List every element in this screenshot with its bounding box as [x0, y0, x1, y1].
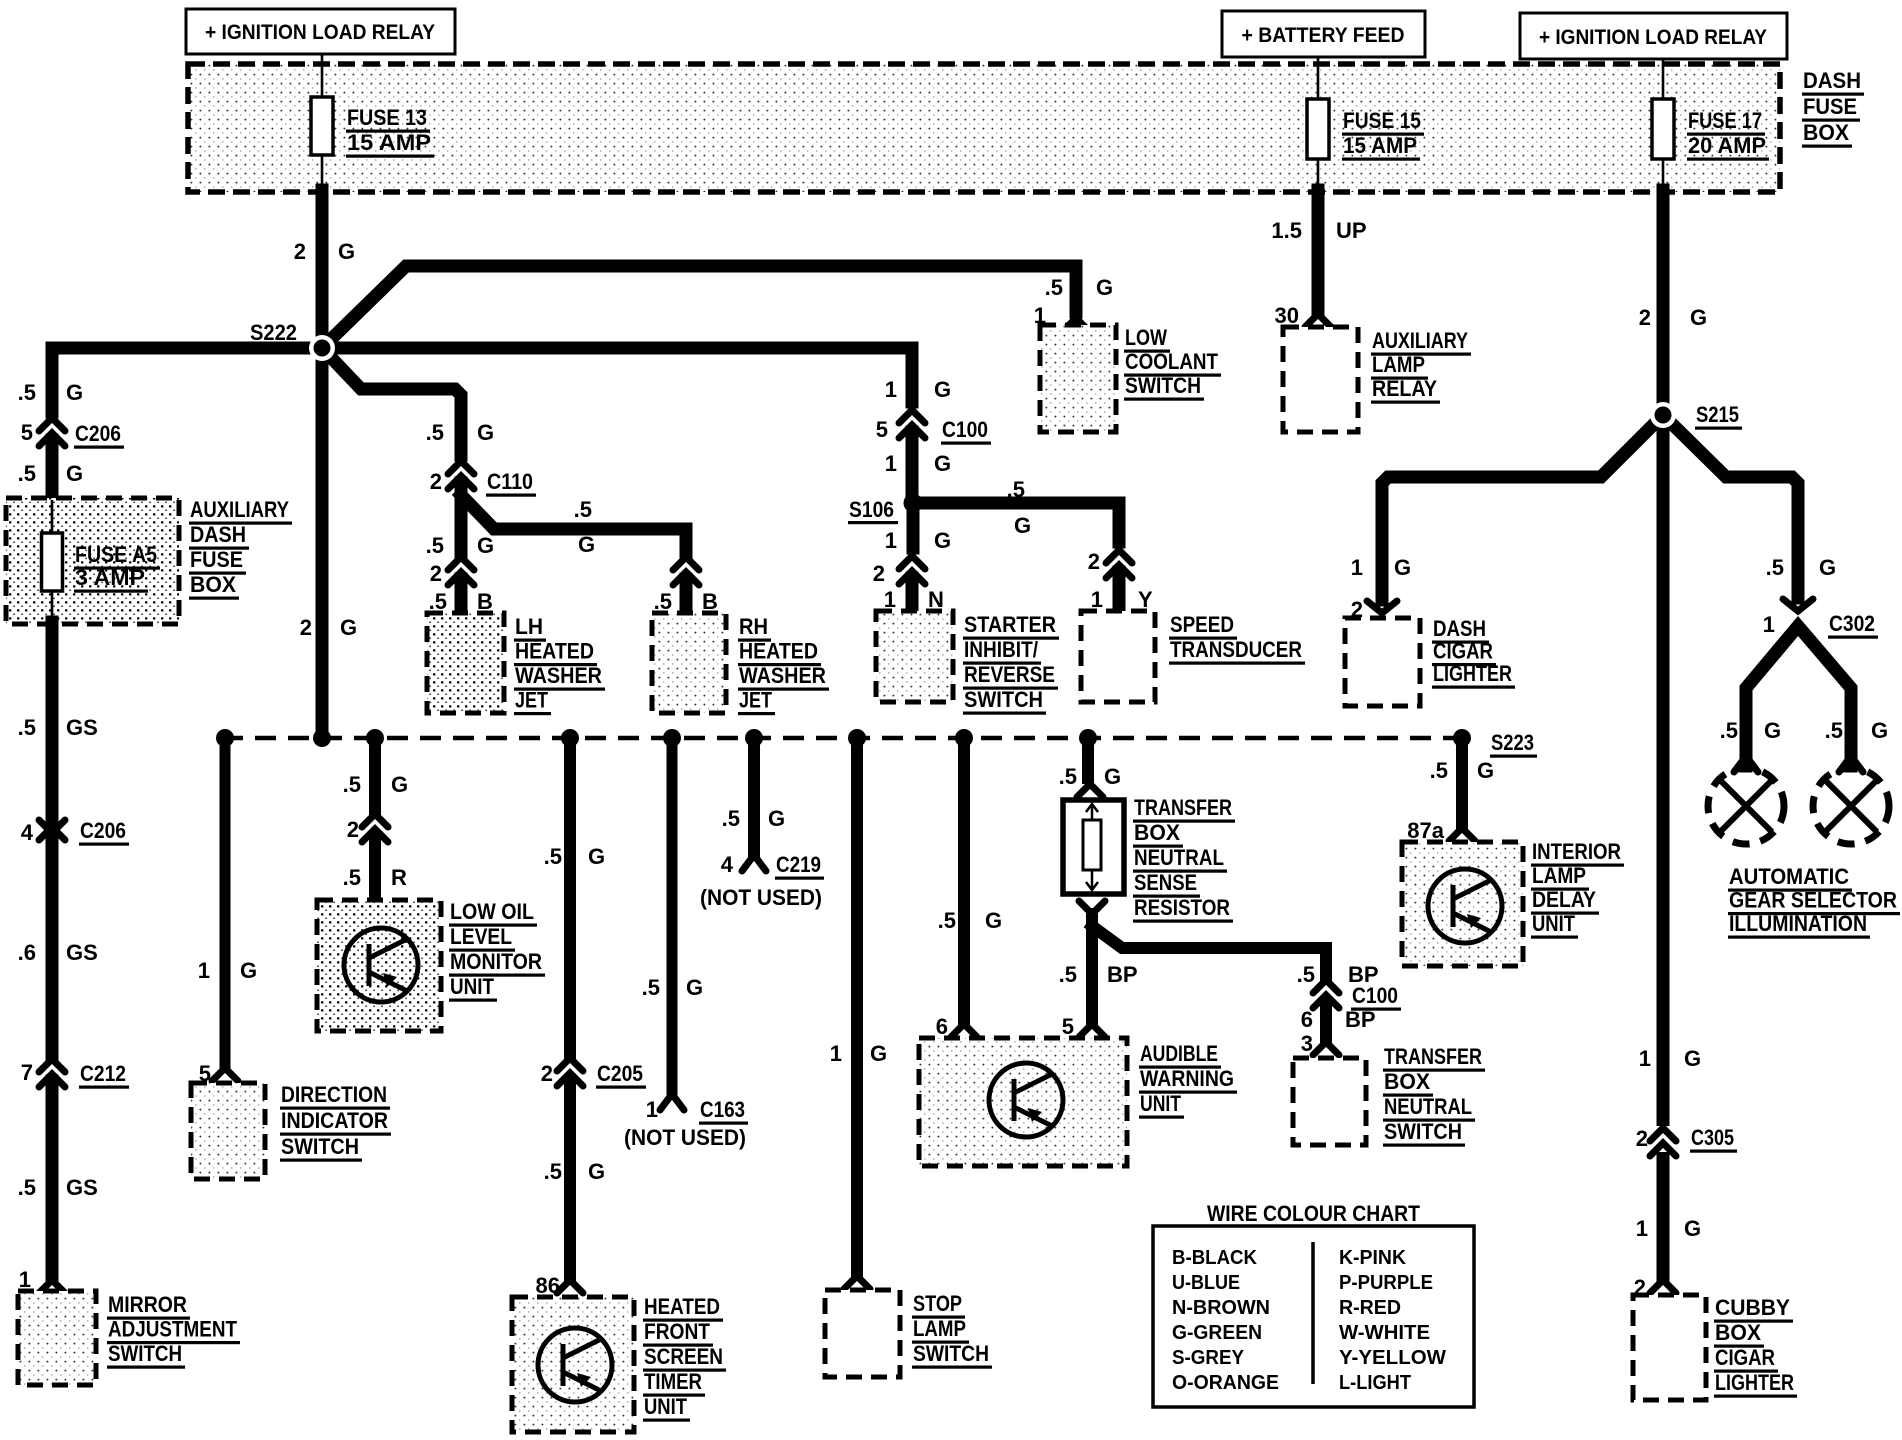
svg-text:S215: S215	[1696, 402, 1739, 427]
fuse 15 value label	[1342, 108, 1424, 161]
bus junction dots	[216, 729, 1097, 747]
svg-text:GS: GS	[66, 1175, 98, 1200]
wire: bus down to direction indicator switch, size 1 colour G, pin 5	[198, 738, 257, 1086]
auxiliary dash fuse box label	[189, 497, 292, 600]
wire: C206 to auxiliary dash fuse box, size .5 colour G	[18, 440, 83, 500]
wire: S222 branch right to C100 / starter inhibit column	[322, 348, 912, 402]
svg-text:G: G	[578, 532, 595, 557]
heated front screen timer unit label	[643, 1294, 726, 1422]
svg-text:C302: C302	[1829, 611, 1875, 636]
wire: sense resistor branch across to C100, size .5 colour BP	[1092, 926, 1379, 987]
transistor symbol in heated front screen timer unit	[538, 1328, 612, 1402]
svg-text:LOW OIL: LOW OIL	[450, 899, 534, 924]
svg-text:.5: .5	[1766, 555, 1784, 580]
starter inhibit / reverse switch	[876, 611, 953, 702]
wire: C206 to C212, size .6 colour GS	[18, 841, 98, 1056]
svg-text:1: 1	[884, 587, 896, 612]
svg-text:UNIT: UNIT	[1140, 1091, 1181, 1116]
svg-text:2: 2	[430, 469, 442, 494]
wire: battery feed down to fuse 15	[1317, 57, 1320, 99]
wire: pin .5 colour B into LH heated washer jet	[429, 579, 493, 614]
svg-text:.5: .5	[426, 420, 444, 445]
svg-text:.5: .5	[544, 1159, 562, 1184]
svg-text:G: G	[391, 772, 408, 797]
svg-text:.5: .5	[343, 865, 361, 890]
svg-text:G: G	[66, 380, 83, 405]
svg-text:TRANSFER: TRANSFER	[1384, 1044, 1482, 1069]
svg-text:G: G	[338, 239, 355, 264]
wire: ignition load relay down to fuse 17	[1662, 59, 1665, 99]
svg-text:FUSE: FUSE	[1803, 94, 1857, 119]
svg-text:TRANSFER: TRANSFER	[1134, 795, 1232, 820]
svg-text:.5: .5	[574, 497, 592, 522]
svg-text:TRANSDUCER: TRANSDUCER	[1170, 637, 1302, 662]
svg-text:LAMP: LAMP	[913, 1316, 966, 1341]
interior lamp delay unit label	[1531, 839, 1624, 939]
svg-text:HEATED: HEATED	[739, 639, 818, 664]
svg-text:NEUTRAL: NEUTRAL	[1384, 1094, 1472, 1119]
svg-text:+ IGNITION LOAD RELAY: + IGNITION LOAD RELAY	[205, 21, 435, 44]
svg-text:G: G	[240, 958, 257, 983]
svg-text:NEUTRAL: NEUTRAL	[1134, 845, 1224, 870]
mirror adjustment switch	[18, 1291, 96, 1385]
connector pin into stop lamp switch	[844, 1276, 870, 1289]
svg-text:S106: S106	[849, 497, 894, 522]
wire: bus down to stop lamp switch, size 1 colour G	[830, 738, 887, 1272]
wire: pin 1 colour Y into speed transducer	[1091, 572, 1153, 612]
svg-text:.5: .5	[429, 589, 447, 614]
svg-text:R: R	[391, 865, 407, 890]
fuse A5 value label	[74, 542, 160, 593]
svg-text:.5: .5	[1007, 477, 1025, 502]
wire label 1 G above C100	[885, 377, 951, 402]
svg-text:G: G	[1477, 758, 1494, 783]
svg-text:G-GREEN: G-GREEN	[1172, 1322, 1262, 1344]
svg-text:CIGAR: CIGAR	[1433, 639, 1493, 664]
transistor symbol in low oil level monitor unit	[344, 928, 418, 1002]
svg-text:DASH: DASH	[190, 522, 246, 547]
svg-text:AUXILIARY: AUXILIARY	[190, 497, 289, 522]
svg-text:2: 2	[294, 239, 306, 264]
svg-text:C212: C212	[80, 1061, 126, 1086]
svg-text:LEVEL: LEVEL	[450, 924, 512, 949]
fuse 13 value label	[346, 105, 434, 158]
wire: C100 to transfer box neutral switch pin 3	[1301, 1002, 1326, 1056]
svg-text:.5: .5	[722, 806, 740, 831]
svg-text:2: 2	[347, 817, 359, 842]
connector pin 2 into cubby box cigar lighter	[1634, 1275, 1676, 1300]
connector C100 pin 6 colour BP	[1301, 980, 1401, 1032]
svg-text:MIRROR: MIRROR	[108, 1292, 187, 1317]
svg-text:JET: JET	[515, 688, 548, 713]
svg-text:G: G	[1104, 764, 1121, 789]
svg-text:AUXILIARY: AUXILIARY	[1372, 328, 1468, 353]
svg-text:G: G	[477, 533, 494, 558]
transfer box neutral sense resistor label	[1133, 795, 1235, 923]
svg-text:G: G	[66, 461, 83, 486]
svg-text:RH: RH	[739, 614, 768, 639]
svg-text:DELAY: DELAY	[1532, 887, 1596, 912]
connector C305 pin 2	[1636, 1125, 1737, 1156]
connector C206 pin 5	[21, 418, 124, 449]
svg-text:INTERIOR: INTERIOR	[1532, 839, 1621, 864]
svg-text:C206: C206	[80, 818, 126, 843]
wire: bus down to low oil level monitor unit, size .5 G then .5 R	[343, 738, 408, 810]
svg-text:S-GREY: S-GREY	[1172, 1347, 1245, 1369]
connector pin 6 into audible warning unit	[951, 1024, 977, 1037]
svg-text:BOX: BOX	[1803, 120, 1849, 145]
svg-text:BOX: BOX	[1715, 1320, 1761, 1345]
connector pin 3 into transfer box neutral switch	[1313, 1042, 1339, 1055]
svg-text:2: 2	[873, 561, 885, 586]
connector pin on RH washer jet wire	[673, 557, 699, 585]
svg-text:Y: Y	[1138, 587, 1153, 612]
svg-text:BP: BP	[1107, 962, 1138, 987]
svg-text:G: G	[1394, 555, 1411, 580]
fuse A5, 3 amp	[42, 533, 63, 591]
connector C205 pin 2	[541, 1058, 646, 1089]
svg-text:C163: C163	[700, 1097, 745, 1122]
node S222 label	[249, 320, 300, 348]
power feed label box: + IGNITION LOAD RELAY (left)	[186, 9, 455, 54]
svg-text:20 AMP: 20 AMP	[1688, 133, 1766, 158]
svg-text:1: 1	[885, 451, 897, 476]
svg-text:.5: .5	[938, 908, 956, 933]
node S222 junction dot	[309, 335, 335, 361]
svg-text:1: 1	[885, 377, 897, 402]
svg-text:WASHER: WASHER	[739, 663, 826, 688]
svg-text:2: 2	[1088, 549, 1100, 574]
cubby box cigar lighter label	[1714, 1295, 1797, 1398]
node S215 junction dot	[1650, 402, 1676, 428]
svg-text:C100: C100	[1352, 983, 1398, 1008]
wire: C212 to mirror adjustment switch, size .5 colour GS, pin 1	[18, 1081, 98, 1292]
svg-text:15 AMP: 15 AMP	[347, 130, 431, 155]
wire: sense resistor down to audible warning unit pin 5, size .5 colour BP	[1059, 901, 1138, 1039]
svg-text:RESISTOR: RESISTOR	[1134, 895, 1230, 920]
connector C100 (starter feed), pin 5	[876, 410, 991, 445]
wire: S222 elbow to connector C110	[322, 348, 461, 455]
stop lamp switch label	[912, 1291, 992, 1369]
svg-text:C219: C219	[776, 852, 821, 877]
transfer box neutral sense resistor	[1063, 800, 1124, 894]
wire: bus down to audible warning unit pin 6, size .5 colour G	[936, 738, 1002, 1039]
svg-text:.5: .5	[18, 461, 36, 486]
direction indicator switch	[191, 1083, 265, 1179]
svg-text:1: 1	[1639, 1046, 1651, 1071]
transfer box neutral switch label	[1383, 1044, 1485, 1147]
connector pin 2 on low oil wire	[347, 814, 388, 842]
automatic gear selector illumination label	[1728, 864, 1900, 939]
lamp: automatic gear selector illumination right bulb	[1813, 756, 1889, 844]
svg-text:.6: .6	[18, 940, 36, 965]
node S223 on bus	[1453, 729, 1537, 758]
svg-text:G: G	[870, 1041, 887, 1066]
starter inhibit / reverse switch label	[963, 612, 1059, 715]
connector pin into low coolant switch	[1063, 318, 1089, 331]
dash fuse box label	[1802, 68, 1864, 148]
svg-text:ILLUMINATION: ILLUMINATION	[1729, 911, 1867, 936]
connector C219 pin 4 (not used)	[721, 852, 824, 880]
svg-text:2: 2	[300, 615, 312, 640]
connector C206 pin 4 (mating pair)	[21, 818, 129, 846]
transistor symbol in audible warning unit	[989, 1063, 1063, 1137]
svg-text:G: G	[985, 908, 1002, 933]
svg-text:5: 5	[876, 417, 888, 442]
wire: pin .5 colour B into RH heated washer jet	[654, 579, 718, 614]
RH heated washer jet label	[738, 614, 829, 715]
svg-text:SWITCH: SWITCH	[281, 1134, 359, 1159]
svg-text:1: 1	[1763, 612, 1775, 637]
svg-text:.5: .5	[343, 772, 361, 797]
wire label 1 G below C305	[1636, 1216, 1701, 1241]
fuse F15	[1307, 99, 1329, 159]
svg-text:LIGHTER: LIGHTER	[1715, 1370, 1794, 1395]
svg-text:SWITCH: SWITCH	[108, 1341, 182, 1366]
wire label 2 G	[294, 239, 355, 264]
svg-text:UP: UP	[1336, 218, 1367, 243]
svg-text:C110: C110	[487, 469, 533, 494]
wire through fuse A5	[51, 500, 54, 620]
connector pin into sense resistor	[1077, 784, 1103, 797]
wire colour chart title	[1207, 1201, 1420, 1226]
svg-text:G: G	[588, 1159, 605, 1184]
svg-text:INDICATOR: INDICATOR	[281, 1108, 388, 1133]
svg-text:4: 4	[721, 852, 734, 877]
svg-text:INHIBIT/: INHIBIT/	[964, 637, 1038, 662]
svg-text:G: G	[934, 377, 951, 402]
svg-text:G: G	[1871, 718, 1888, 743]
svg-text:FUSE A5: FUSE A5	[75, 542, 157, 567]
svg-text:.5: .5	[544, 844, 562, 869]
svg-text:G: G	[686, 975, 703, 1000]
svg-text:SWITCH: SWITCH	[964, 687, 1043, 712]
svg-text:FRONT: FRONT	[644, 1319, 710, 1344]
svg-text:FUSE 13: FUSE 13	[347, 105, 427, 130]
node S106	[849, 494, 923, 523]
svg-text:87a: 87a	[1407, 818, 1444, 843]
wire: ignition load relay feed down to fuse 13	[321, 54, 324, 97]
svg-text:TIMER: TIMER	[644, 1369, 702, 1394]
svg-text:.5: .5	[1059, 764, 1077, 789]
svg-text:G: G	[1764, 718, 1781, 743]
svg-text:1: 1	[830, 1041, 842, 1066]
svg-text:C206: C206	[75, 421, 121, 446]
svg-text:N: N	[928, 587, 944, 612]
svg-text:.5: .5	[1297, 962, 1315, 987]
audible warning unit	[919, 1038, 1127, 1166]
svg-text:JET: JET	[739, 688, 772, 713]
svg-text:DASH: DASH	[1433, 616, 1486, 641]
svg-text:SWITCH: SWITCH	[1125, 373, 1201, 398]
power feed label box: + BATTERY FEED	[1222, 11, 1425, 57]
svg-text:G: G	[934, 528, 951, 553]
svg-text:O-ORANGE: O-ORANGE	[1172, 1372, 1279, 1394]
svg-text:R-RED: R-RED	[1339, 1297, 1401, 1319]
svg-text:B: B	[702, 589, 718, 614]
connector pin 2 on starter inhibit wire	[873, 556, 925, 586]
interior lamp delay unit	[1402, 842, 1523, 966]
svg-text:WARNING: WARNING	[1140, 1066, 1234, 1091]
(NOT USED) note for C163	[624, 1125, 746, 1150]
wire: pin 1 colour N into starter inhibit/reverse switch	[884, 578, 944, 612]
connector C302 pin 1	[1763, 599, 1878, 639]
svg-text:15 AMP: 15 AMP	[1343, 133, 1417, 158]
svg-text:N-BROWN: N-BROWN	[1172, 1297, 1270, 1319]
dash cigar lighter label	[1432, 616, 1515, 689]
svg-text:GEAR SELECTOR: GEAR SELECTOR	[1729, 888, 1897, 913]
wire: S222 trunk down to bus	[316, 190, 329, 738]
svg-text:1: 1	[646, 1097, 658, 1122]
svg-text:G: G	[477, 420, 494, 445]
svg-text:G: G	[768, 806, 785, 831]
svg-text:2: 2	[541, 1061, 553, 1086]
svg-text:UNIT: UNIT	[1532, 911, 1575, 936]
svg-text:.5: .5	[426, 533, 444, 558]
svg-text:G: G	[1684, 1046, 1701, 1071]
svg-text:C100: C100	[942, 417, 988, 442]
wire: fuse 15 to box edge	[1317, 159, 1320, 192]
power feed label box: + IGNITION LOAD RELAY (right)	[1520, 13, 1787, 59]
svg-text:UNIT: UNIT	[450, 974, 494, 999]
wire label 1 G on S215 down feed	[1639, 1046, 1701, 1071]
fuse F17	[1652, 99, 1674, 159]
wire label .5 G above C110	[426, 420, 494, 445]
svg-text:G: G	[588, 844, 605, 869]
svg-text:2: 2	[430, 561, 442, 586]
svg-text:FUSE 15: FUSE 15	[1343, 108, 1421, 133]
svg-text:1: 1	[1351, 555, 1363, 580]
svg-text:C205: C205	[597, 1061, 643, 1086]
connector C110 pin 2	[430, 461, 536, 497]
interconnect bus wire (dashed)	[222, 736, 1462, 741]
lamp: automatic gear selector illumination left bulb	[1708, 756, 1784, 844]
auxiliary lamp relay	[1283, 327, 1358, 432]
svg-text:LAMP: LAMP	[1532, 863, 1586, 888]
svg-text:G: G	[340, 615, 357, 640]
wire: bus down to unused connector C163, size .5 colour G	[642, 738, 703, 1094]
wire: S222 left branch to auxiliary dash fuse box, size .5 colour G	[18, 348, 322, 412]
svg-text:BOX: BOX	[1134, 820, 1180, 845]
audible warning unit label	[1139, 1041, 1237, 1119]
svg-text:SPEED: SPEED	[1170, 612, 1234, 637]
connector pin into direction indicator switch	[212, 1068, 238, 1081]
svg-text:.5: .5	[1720, 718, 1738, 743]
svg-text:B: B	[477, 589, 493, 614]
svg-text:.5: .5	[18, 1175, 36, 1200]
svg-text:6: 6	[936, 1014, 948, 1039]
wire: S215 branch right to C302, size .5 colour G	[1663, 415, 1836, 598]
dash cigar lighter	[1345, 618, 1420, 706]
transistor symbol in interior lamp delay unit	[1428, 869, 1502, 943]
connector pin 87a into interior lamp delay unit	[1449, 828, 1475, 841]
connector C163 pin 1 (not used)	[646, 1094, 748, 1125]
wire: bus down to unused connector C219, size .5 colour G	[722, 738, 785, 855]
direction indicator switch label	[280, 1082, 391, 1162]
svg-text:BP: BP	[1345, 1007, 1376, 1032]
heated front screen timer unit	[512, 1297, 634, 1432]
wire: C100 to node S106, size 1 colour G	[885, 432, 951, 500]
wire: S222 branch up-right then across to low coolant switch	[322, 266, 1076, 348]
svg-text:HEATED: HEATED	[644, 1294, 720, 1319]
svg-text:.5: .5	[1430, 758, 1448, 783]
svg-text:SENSE: SENSE	[1134, 870, 1197, 895]
svg-text:LAMP: LAMP	[1372, 352, 1425, 377]
wire: C110 down to LH washer jet branch point, size .5 colour G	[426, 483, 494, 558]
svg-text:1.5: 1.5	[1271, 218, 1302, 243]
mirror adjustment switch label	[107, 1292, 240, 1369]
wire label .5 G and pin 1 at low coolant switch	[1034, 275, 1113, 328]
svg-text:1: 1	[19, 1267, 31, 1292]
speed transducer label	[1169, 612, 1305, 665]
svg-text:.5: .5	[1059, 962, 1077, 987]
wire: S223 down to interior lamp delay unit, size .5 colour G, pin 87a	[1407, 738, 1494, 843]
wire: C205 to heated front screen timer unit, size .5 colour G, pin 86	[536, 1080, 606, 1298]
svg-text:+ BATTERY FEED: + BATTERY FEED	[1242, 24, 1405, 47]
connector pin 2 on LH washer jet wire	[430, 557, 474, 586]
low coolant switch	[1040, 325, 1116, 432]
svg-text:G: G	[934, 451, 951, 476]
svg-text:REVERSE: REVERSE	[964, 662, 1055, 687]
svg-text:.5: .5	[654, 589, 672, 614]
svg-text:GS: GS	[66, 715, 98, 740]
svg-text:1: 1	[1091, 587, 1103, 612]
wire colour chart entries	[1172, 1247, 1446, 1394]
transfer box neutral switch	[1293, 1058, 1366, 1145]
low coolant switch label	[1124, 325, 1221, 401]
wire: S106 down, size 1 colour G	[885, 503, 951, 553]
fuse F13	[311, 97, 333, 155]
svg-text:G: G	[1684, 1216, 1701, 1241]
connector pin 86 into heated front screen timer unit	[557, 1280, 583, 1293]
svg-text:SWITCH: SWITCH	[913, 1341, 989, 1366]
wire: fuse 15 feed to auxiliary lamp relay, size 1.5 colour UP, pin 30	[1271, 190, 1366, 328]
svg-text:DIRECTION: DIRECTION	[281, 1082, 387, 1107]
svg-text:SWITCH: SWITCH	[1384, 1119, 1462, 1144]
wire: fuse 17 feed down to node S215, size 2 colour G	[1639, 190, 1707, 1276]
svg-text:.5: .5	[18, 715, 36, 740]
svg-text:LH: LH	[515, 614, 543, 639]
wire: S106 across to speed transducer, size .5 colour G	[913, 477, 1119, 542]
svg-text:RELAY: RELAY	[1372, 376, 1437, 401]
svg-text:AUTOMATIC: AUTOMATIC	[1729, 864, 1849, 889]
svg-text:COOLANT: COOLANT	[1125, 349, 1218, 374]
svg-text:1: 1	[1636, 1216, 1648, 1241]
svg-text:5: 5	[21, 420, 33, 445]
wire: bus down to heated front screen timer unit, size .5 colour G	[544, 738, 605, 1054]
wire: S215 branch to dash cigar lighter, size 1 colour G	[1351, 415, 1663, 600]
svg-text:.5: .5	[642, 975, 660, 1000]
svg-text:CIGAR: CIGAR	[1715, 1345, 1775, 1370]
connector C212 pin 7	[21, 1059, 129, 1089]
svg-text:B-BLACK: B-BLACK	[1172, 1247, 1258, 1269]
svg-text:AUDIBLE: AUDIBLE	[1140, 1041, 1218, 1066]
svg-text:6: 6	[1301, 1007, 1313, 1032]
svg-text:WIRE COLOUR CHART: WIRE COLOUR CHART	[1207, 1201, 1420, 1226]
svg-text:(NOT USED): (NOT USED)	[624, 1125, 746, 1150]
low oil level monitor unit label	[449, 899, 545, 1002]
svg-text:7: 7	[21, 1060, 33, 1085]
wire: C302 split to gear selector lamps, size .5 colour G each	[1720, 626, 1888, 766]
wire: aux fuse box down to C206 pin 4, size .5 colour GS	[18, 622, 98, 820]
svg-text:MONITOR: MONITOR	[450, 949, 542, 974]
svg-text:Y-YELLOW: Y-YELLOW	[1339, 1347, 1446, 1369]
node S215 label	[1695, 402, 1742, 430]
svg-text:(NOT USED): (NOT USED)	[700, 885, 822, 910]
wire: fuse 13 feed down to node S222, size 2 colour G	[316, 190, 329, 348]
svg-text:P-PURPLE: P-PURPLE	[1339, 1272, 1433, 1294]
svg-text:W-WHITE: W-WHITE	[1339, 1322, 1430, 1344]
